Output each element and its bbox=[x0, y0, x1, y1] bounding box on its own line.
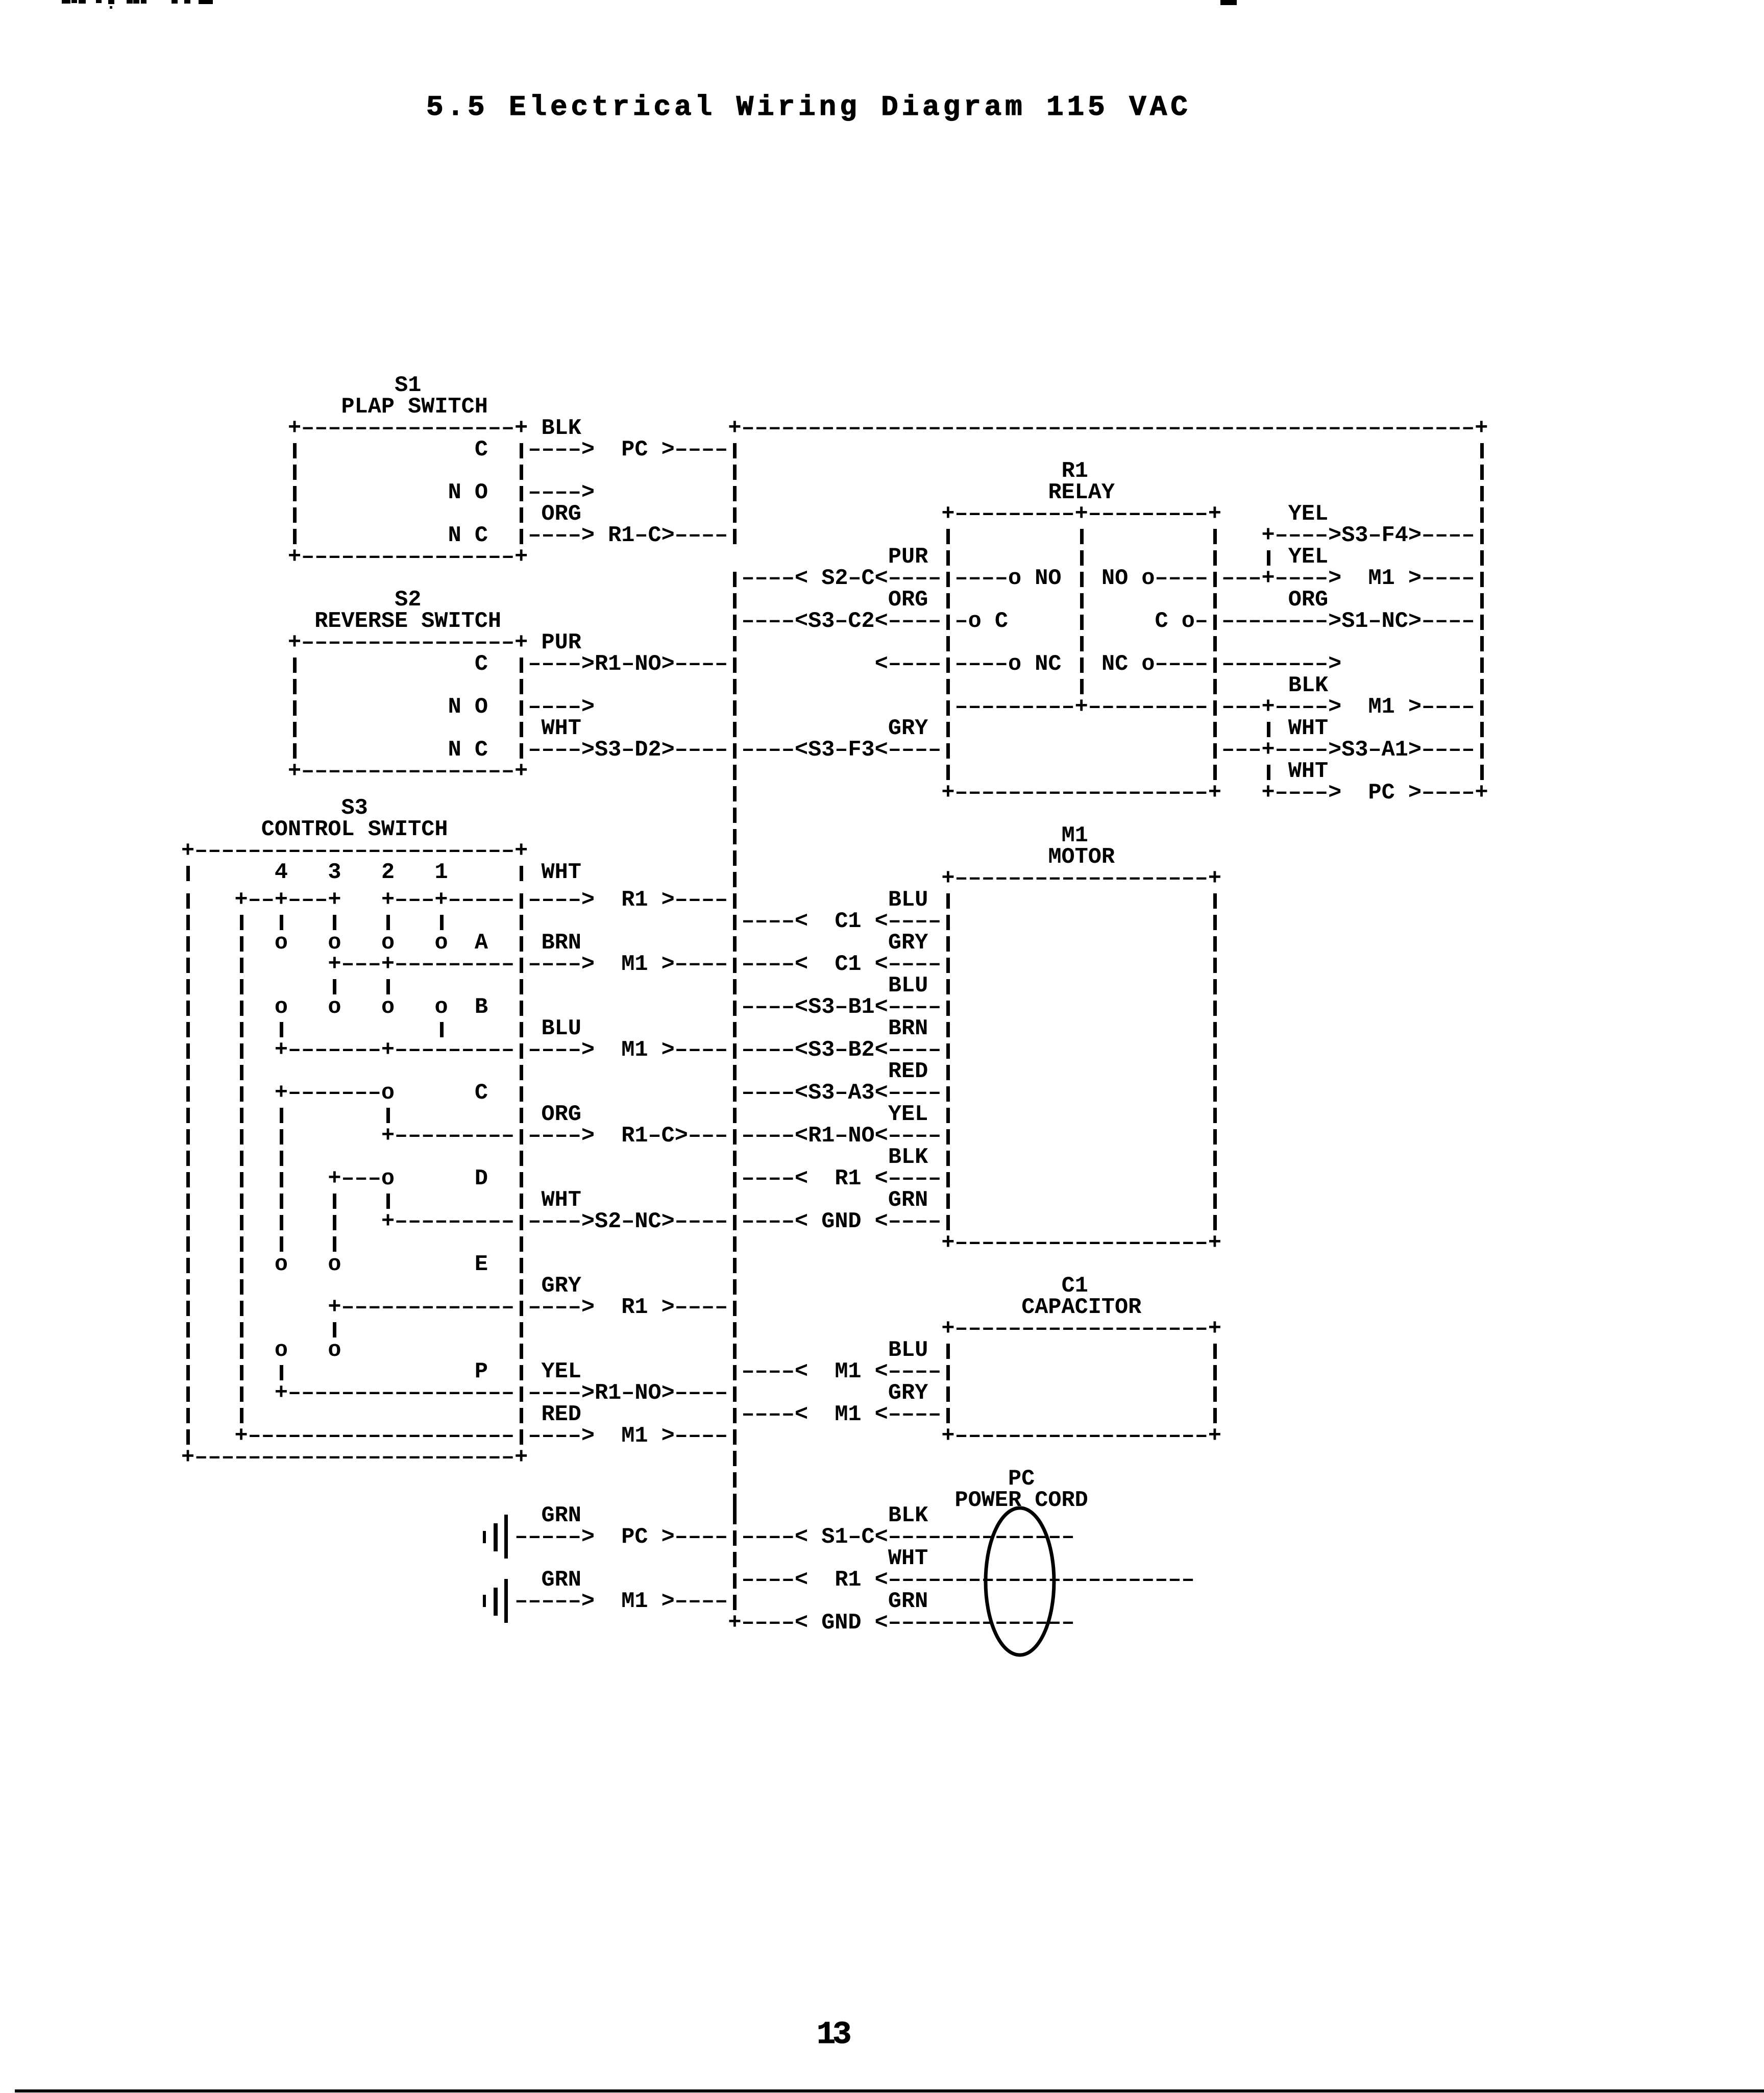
S3 position 3 bbox=[328, 862, 341, 884]
S3 row E stem 3 bbox=[333, 1322, 336, 1337]
wire color label YEL bbox=[888, 1104, 928, 1126]
S3 common vertical wire bbox=[240, 1172, 243, 1187]
node M1 bbox=[621, 1426, 648, 1447]
relay R1 box center divider bbox=[1080, 593, 1084, 609]
wire junction / color label WHT bbox=[1267, 722, 1270, 737]
relay R1 box left edge bbox=[946, 722, 950, 737]
ground symbol (M1 green wire) bbox=[483, 1595, 486, 1607]
switch S3 box left edge bbox=[186, 1001, 190, 1016]
S3 contact E4 bbox=[275, 1254, 288, 1276]
motor M1 box left edge bbox=[946, 936, 950, 952]
S3 row C stem 4 bbox=[280, 1151, 283, 1166]
power cord PC name bbox=[955, 1490, 1088, 1512]
wire color label BLU bbox=[888, 1340, 928, 1361]
motor M1 box left edge bbox=[946, 979, 950, 994]
main bus box left edge bbox=[733, 808, 737, 823]
switch S1 box top edge bbox=[288, 418, 528, 440]
wire color label GRN bbox=[888, 1190, 928, 1211]
relay R1 box left edge bbox=[946, 529, 950, 544]
wire color label GRN bbox=[888, 1591, 928, 1613]
main bus box right edge bbox=[1480, 507, 1484, 523]
S3 row F wire (YEL) to node R1-NO bbox=[275, 1383, 514, 1404]
switch S3 name bbox=[261, 819, 448, 841]
motor M1 box left edge bbox=[946, 893, 950, 909]
S3 common vertical wire bbox=[240, 1151, 243, 1166]
relay R1 name bbox=[1048, 482, 1115, 504]
S3 row C stem 2 bbox=[386, 1108, 390, 1123]
switch S3 box left edge bbox=[186, 979, 190, 994]
relay R1 box left edge bbox=[946, 765, 950, 780]
switch S3 box right edge bbox=[520, 1365, 523, 1380]
switch S3 box left edge bbox=[186, 1086, 190, 1102]
wire color label BLU bbox=[888, 976, 928, 997]
wire S3 to main bus bbox=[661, 1426, 728, 1447]
main bus box left edge bbox=[733, 1279, 737, 1295]
wire color label GRY bbox=[888, 1383, 928, 1404]
main bus box left edge bbox=[733, 1552, 737, 1567]
motor M1 box right edge bbox=[1213, 915, 1217, 930]
switch S3 box left edge bbox=[186, 1172, 190, 1187]
wire PUR relay NO to node S2-C bbox=[733, 572, 737, 587]
wire color label YEL bbox=[542, 1361, 581, 1383]
wire S1 C out (BLK) bbox=[520, 443, 523, 458]
S3 common vertical wire bbox=[240, 915, 243, 930]
switch S3 box left edge bbox=[186, 1365, 190, 1380]
main bus box left edge bbox=[733, 850, 737, 866]
S3 row label D bbox=[475, 1169, 488, 1190]
switch S3 box left edge bbox=[186, 1151, 190, 1166]
motor M1 name bbox=[1048, 847, 1115, 868]
switch S3 box left edge bbox=[186, 915, 190, 930]
switch S3 reference designator bbox=[341, 798, 368, 819]
relay R1 box left edge bbox=[946, 550, 950, 566]
wire BLK to node M1 bbox=[1221, 697, 1475, 718]
main bus box left edge bbox=[733, 1322, 737, 1337]
switch S3 box right edge bbox=[520, 1065, 523, 1080]
switch S3 box right edge bbox=[520, 1344, 523, 1359]
node R1-C bbox=[621, 1126, 688, 1147]
capacitor C1 box right edge bbox=[1213, 1408, 1217, 1423]
main bus box left edge bbox=[733, 936, 737, 952]
relay R1 box right edge bbox=[1213, 529, 1217, 544]
power cord PC reference designator bbox=[1008, 1469, 1035, 1490]
switch S2 box left edge bbox=[293, 700, 297, 716]
wire S1 NO out bbox=[520, 486, 523, 501]
wire BLU motor to node S3-B1 bbox=[733, 1001, 737, 1016]
S3 row A stem 2 bbox=[386, 979, 390, 994]
switch S2 box top edge bbox=[288, 632, 528, 654]
switch S3 box left edge bbox=[186, 1215, 190, 1230]
switch S3 box left edge bbox=[186, 1322, 190, 1337]
wire color label WHT bbox=[542, 1190, 581, 1211]
S3 row D stem 2 bbox=[386, 1194, 390, 1209]
wire YEL relay to node S3-F4 bbox=[1262, 525, 1475, 547]
S3 row C stem 4 bbox=[280, 1236, 283, 1252]
main bus box left edge bbox=[733, 1065, 737, 1080]
switch S3 box left edge bbox=[186, 1194, 190, 1209]
switch S3 box left edge bbox=[186, 1258, 190, 1273]
wire color label BRN bbox=[542, 933, 581, 954]
capacitor C1 box bottom edge bbox=[941, 1426, 1221, 1447]
ground symbol (PC green wire) bbox=[483, 1531, 486, 1543]
wire relay NC / relay R1 contact NC left bbox=[875, 654, 942, 675]
power cord PC cable ellipse bbox=[984, 1506, 1056, 1657]
main bus box left edge bbox=[733, 486, 737, 501]
switch S2 box left edge bbox=[293, 722, 297, 737]
switch S1 box left edge bbox=[293, 507, 297, 523]
relay R1 box right edge bbox=[1213, 679, 1217, 694]
wire BLK motor to node R1 bbox=[733, 1172, 737, 1187]
switch S3 box left edge bbox=[186, 1386, 190, 1402]
wire color label BLU bbox=[888, 890, 928, 911]
switch S3 box left edge bbox=[186, 1279, 190, 1295]
switch S1 box right edge bbox=[520, 507, 523, 523]
main bus box left edge bbox=[733, 786, 737, 801]
switch S3 box left edge bbox=[186, 1344, 190, 1359]
S3 common vertical wire bbox=[240, 936, 243, 952]
S3 common vertical wire bbox=[240, 1365, 243, 1380]
switch S1 box bottom edge bbox=[288, 547, 528, 568]
switch S3 box right edge bbox=[520, 1001, 523, 1016]
relay R1 box center divider bbox=[1080, 572, 1084, 587]
S3 row D stem 3 bbox=[333, 1194, 336, 1209]
S3 common vertical wire bbox=[240, 1258, 243, 1273]
switch S2 box right edge bbox=[520, 722, 523, 737]
S3 common vertical wire bbox=[240, 1022, 243, 1037]
scan artifact: line along bottom edge bbox=[15, 2089, 1764, 2092]
wire BLU capacitor to node M1 bbox=[733, 1365, 737, 1380]
motor M1 reference designator bbox=[1062, 825, 1088, 847]
S3 row C stem 4 bbox=[280, 1194, 283, 1209]
main bus box left edge bbox=[733, 1472, 737, 1488]
wire GRY capacitor to node M1 bbox=[733, 1408, 737, 1423]
wire color label GRY bbox=[888, 933, 928, 954]
S3 row C stem 4 bbox=[280, 1172, 283, 1187]
motor M1 box right edge bbox=[1213, 1172, 1217, 1187]
switch S3 box right edge bbox=[520, 1172, 523, 1187]
motor M1 box left edge bbox=[946, 1108, 950, 1123]
S3 row D wire to contact D2 bbox=[328, 1169, 395, 1190]
main bus box left edge bbox=[733, 979, 737, 994]
switch S3 box left edge bbox=[186, 1301, 190, 1316]
relay R1 box center divider bbox=[1080, 636, 1084, 651]
S3 common vertical wire bbox=[240, 1108, 243, 1123]
wire color label WHT bbox=[542, 718, 581, 740]
motor M1 box right edge bbox=[1213, 1151, 1217, 1166]
wire S1 NC to main bus bbox=[675, 525, 728, 547]
S3 common vertical wire bbox=[240, 1001, 243, 1016]
S3 contact stem 4 bbox=[280, 915, 283, 930]
switch S3 box right edge bbox=[520, 1108, 523, 1123]
wire color label BLK bbox=[888, 1147, 928, 1169]
main bus box left edge bbox=[733, 679, 737, 694]
switch S3 box left edge bbox=[186, 936, 190, 952]
wire BRN motor to node S3-B2 bbox=[741, 1040, 941, 1061]
wire S2 NC (WHT) to node S3-D2 / wire GRY relay to node S3-F3 bbox=[520, 743, 523, 759]
switch S3 box left edge bbox=[186, 1408, 190, 1423]
switch S1 box left edge bbox=[293, 486, 297, 501]
wire WHT to node PC / main bus bottom right corner bbox=[1262, 783, 1488, 804]
S1 terminal C bbox=[475, 440, 488, 461]
switch S2 reference designator bbox=[395, 590, 421, 611]
S3 row C stem 4 bbox=[280, 1108, 283, 1123]
main bus box left edge bbox=[733, 722, 737, 737]
main bus box left edge bbox=[733, 700, 737, 716]
S3 pole wire positions 2-1 / wire WHT out bbox=[381, 890, 514, 911]
wire from ground (GRN) bbox=[514, 1591, 595, 1613]
S3 row C stem 4 bbox=[280, 1215, 283, 1230]
wire S1 C to main bus bbox=[661, 440, 728, 461]
wire to main bus / wire BLK power cord to node S1-C bbox=[661, 1527, 728, 1548]
wire color label PUR bbox=[888, 547, 928, 568]
wire color label BLK bbox=[888, 1505, 928, 1527]
switch S3 box left edge bbox=[186, 1236, 190, 1252]
relay R1 box top edge bbox=[941, 504, 1221, 525]
S3 row label C bbox=[475, 1083, 488, 1104]
wire color label YEL bbox=[1288, 504, 1328, 525]
main bus box left edge bbox=[733, 1151, 737, 1166]
S3 common vertical wire bbox=[240, 1215, 243, 1230]
relay R1 contact NC right / wire out bbox=[1101, 654, 1208, 675]
switch S3 box right edge bbox=[520, 1086, 523, 1102]
switch S3 box right edge bbox=[520, 1322, 523, 1337]
main bus box right edge bbox=[1480, 765, 1484, 780]
switch S3 box right edge bbox=[520, 1236, 523, 1252]
motor M1 box right edge bbox=[1213, 893, 1217, 909]
S3 row B wire (BLU) out bbox=[275, 1040, 514, 1061]
relay R1 box right edge bbox=[1213, 593, 1217, 609]
switch S3 box right edge bbox=[520, 1194, 523, 1209]
wire color label GRY bbox=[888, 718, 928, 740]
switch S2 box left edge bbox=[293, 743, 297, 759]
wire to main bus bbox=[661, 1591, 728, 1613]
S3 pole wire positions 4-3 bbox=[235, 890, 341, 911]
S3 row label E bbox=[475, 1254, 488, 1276]
S3 common vertical wire bbox=[240, 958, 243, 973]
S3 contact B2 bbox=[381, 997, 395, 1018]
scan artifact: clipped text marks along top edge bbox=[62, 0, 70, 4]
switch S1 box left edge bbox=[293, 465, 297, 480]
wire color label GRY bbox=[542, 1276, 581, 1297]
S3 row label A bbox=[475, 933, 488, 954]
main bus box left edge bbox=[733, 1258, 737, 1273]
capacitor C1 box left edge bbox=[946, 1344, 950, 1359]
switch S3 box left edge bbox=[186, 1429, 190, 1445]
main bus box right edge bbox=[1480, 636, 1484, 651]
main bus box right edge bbox=[1480, 722, 1484, 737]
capacitor C1 box right edge bbox=[1213, 1365, 1217, 1380]
main bus box right edge bbox=[1480, 679, 1484, 694]
wire GRN power cord to node GND bbox=[728, 1613, 1074, 1634]
S3 contact A1 bbox=[434, 933, 448, 954]
wire color label ORG bbox=[542, 504, 581, 525]
S3 contact F3 bbox=[328, 1340, 341, 1361]
S2 terminal NO bbox=[448, 697, 488, 718]
switch S3 box left edge bbox=[186, 893, 190, 909]
S3 common vertical wire bbox=[240, 1065, 243, 1080]
S3 common vertical wire bbox=[240, 1129, 243, 1145]
wire S3 to main bus bbox=[661, 1297, 728, 1319]
S3 contact A2 bbox=[381, 933, 395, 954]
wire color label PUR bbox=[542, 632, 581, 654]
motor M1 box left edge bbox=[946, 1065, 950, 1080]
switch S2 box bottom edge bbox=[288, 761, 528, 783]
main bus box right edge bbox=[1480, 593, 1484, 609]
switch S1 box right edge bbox=[520, 465, 523, 480]
capacitor C1 box left edge bbox=[946, 1386, 950, 1402]
wire color label WHT bbox=[542, 862, 581, 884]
capacitor C1 box top edge bbox=[941, 1319, 1221, 1340]
motor M1 box left edge bbox=[946, 1022, 950, 1037]
S2 terminal NC bbox=[448, 740, 488, 761]
wire color label GRN bbox=[542, 1570, 581, 1591]
relay R1 box right edge bbox=[1213, 722, 1217, 737]
node PC bbox=[621, 440, 648, 461]
relay R1 box center divider bbox=[1080, 529, 1084, 544]
S3 common vertical wire bbox=[240, 1086, 243, 1102]
main bus box left edge bbox=[733, 1451, 737, 1466]
node R1-C bbox=[608, 525, 675, 547]
S3 contact E3 bbox=[328, 1254, 341, 1276]
relay R1 box left edge bbox=[946, 679, 950, 694]
switch S2 box left edge bbox=[293, 658, 297, 673]
motor M1 box left edge bbox=[946, 1194, 950, 1209]
wire through relay R1 coil row bbox=[946, 700, 950, 716]
relay contact C right / wire ORG to node S1-NC bbox=[1155, 611, 1208, 632]
wire S1 NC out (ORG) bbox=[520, 529, 523, 544]
switch S3 box right edge bbox=[520, 1151, 523, 1166]
node M1 bbox=[621, 1591, 648, 1613]
switch S2 box right edge bbox=[520, 679, 523, 694]
motor M1 box top edge bbox=[941, 868, 1221, 890]
main bus box right edge bbox=[1480, 465, 1484, 480]
relay R1 box right edge bbox=[1213, 765, 1217, 780]
switch S3 box left edge bbox=[186, 866, 190, 881]
main bus box left edge bbox=[733, 872, 737, 887]
S3 row F stem 4 bbox=[280, 1365, 283, 1380]
S3 row label B bbox=[475, 997, 488, 1018]
switch S3 box right edge bbox=[520, 979, 523, 994]
main bus box left edge bbox=[733, 593, 737, 609]
S3 row C wire to contact C2 bbox=[275, 1083, 395, 1104]
switch S3 box left edge bbox=[186, 1022, 190, 1037]
switch S3 box left edge bbox=[186, 1108, 190, 1123]
S3 position 4 bbox=[275, 862, 288, 884]
S1 terminal NC bbox=[448, 525, 488, 547]
S3 contact B1 bbox=[434, 997, 448, 1018]
switch S3 box left edge bbox=[186, 1065, 190, 1080]
S3 row A wire (BRN) out bbox=[328, 954, 514, 976]
switch S3 box top edge bbox=[181, 841, 528, 862]
motor M1 box right edge bbox=[1213, 1108, 1217, 1123]
relay R1 box center divider bbox=[1080, 615, 1084, 630]
S3 common wire (RED) out bbox=[235, 1426, 515, 1447]
wire S3 to main bus bbox=[661, 890, 728, 911]
S3 row D stem 3 bbox=[333, 1215, 336, 1230]
relay R1 box right edge bbox=[1213, 550, 1217, 566]
motor M1 box right edge bbox=[1213, 1065, 1217, 1080]
wire color label RED bbox=[888, 1061, 928, 1083]
motor M1 box right edge bbox=[1213, 1086, 1217, 1102]
S3 common vertical wire bbox=[240, 1344, 243, 1359]
S3 contact B3 bbox=[328, 997, 341, 1018]
wire from ground (GRN) bbox=[514, 1527, 595, 1548]
main bus box left edge bbox=[733, 1509, 737, 1524]
node R1 bbox=[621, 1297, 648, 1319]
motor M1 box right edge bbox=[1213, 1022, 1217, 1037]
main bus box left edge bbox=[733, 1022, 737, 1037]
S3 common vertical wire bbox=[240, 1386, 243, 1402]
wire WHT power cord to node R1 bbox=[733, 1573, 737, 1589]
S3 row A stem 3 bbox=[333, 979, 336, 994]
capacitor C1 box right edge bbox=[1213, 1344, 1217, 1359]
node PC bbox=[621, 1527, 648, 1548]
switch S3 box left edge bbox=[186, 958, 190, 973]
S3 common vertical wire bbox=[240, 1408, 243, 1423]
S3 common vertical wire bbox=[240, 1236, 243, 1252]
main bus box top edge bbox=[728, 418, 1488, 440]
main bus box left edge bbox=[733, 507, 737, 523]
wire YEL junction / color label YEL bbox=[1267, 550, 1270, 566]
S3 row label F bbox=[475, 1361, 488, 1383]
wire S3 to main bus bbox=[688, 1126, 728, 1147]
wire color label ORG bbox=[1288, 590, 1328, 611]
S3 row B stem 4 bbox=[280, 1022, 283, 1037]
wire color label ORG bbox=[888, 590, 928, 611]
motor M1 box right edge bbox=[1213, 1215, 1217, 1230]
S2 terminal C bbox=[475, 654, 488, 675]
S3 contact B4 bbox=[275, 997, 288, 1018]
switch S3 box right edge bbox=[520, 1022, 523, 1037]
S3 common vertical wire bbox=[240, 1043, 243, 1059]
S3 row C stem 4 bbox=[280, 1129, 283, 1145]
main bus box left edge bbox=[733, 1236, 737, 1252]
wire color label GRN bbox=[542, 1505, 581, 1527]
motor M1 box right edge bbox=[1213, 1129, 1217, 1145]
switch S2 box left edge bbox=[293, 679, 297, 694]
motor M1 box bottom edge bbox=[941, 1233, 1221, 1254]
motor M1 box right edge bbox=[1213, 936, 1217, 952]
wire color label ORG bbox=[542, 1104, 581, 1126]
switch S3 box right edge bbox=[520, 1408, 523, 1423]
wire S3 to main bus bbox=[661, 954, 728, 976]
S3 position 1 bbox=[434, 862, 448, 884]
capacitor C1 reference designator bbox=[1062, 1276, 1088, 1297]
wire color label BRN bbox=[888, 1018, 928, 1040]
main bus box left edge bbox=[733, 465, 737, 480]
switch S1 box left edge bbox=[293, 443, 297, 458]
relay R1 reference designator bbox=[1062, 461, 1088, 482]
main bus box right edge bbox=[1480, 486, 1484, 501]
wire color label BLK bbox=[542, 418, 581, 440]
main bus box left edge bbox=[733, 1194, 737, 1209]
relay R1 box center divider bbox=[1080, 658, 1084, 673]
switch S3 box left edge bbox=[186, 1129, 190, 1145]
S1 terminal NO bbox=[448, 482, 488, 504]
relay R1 contact NO right / wire YEL to node M1 bbox=[1101, 568, 1208, 590]
capacitor C1 name bbox=[1021, 1297, 1141, 1319]
S3 common vertical wire bbox=[240, 1322, 243, 1337]
S3 row C wire (ORG) out bbox=[381, 1126, 514, 1147]
S3 contact stem 2 bbox=[386, 915, 390, 930]
capacitor C1 box right edge bbox=[1213, 1386, 1217, 1402]
switch S1 reference designator bbox=[395, 375, 421, 397]
wire color label BLK bbox=[1288, 675, 1328, 697]
wire S3 to main bus bbox=[661, 1040, 728, 1061]
switch S3 box left edge bbox=[186, 1043, 190, 1059]
wire WHT to node S3-A1 bbox=[1213, 743, 1217, 759]
relay R1 box left edge bbox=[946, 593, 950, 609]
